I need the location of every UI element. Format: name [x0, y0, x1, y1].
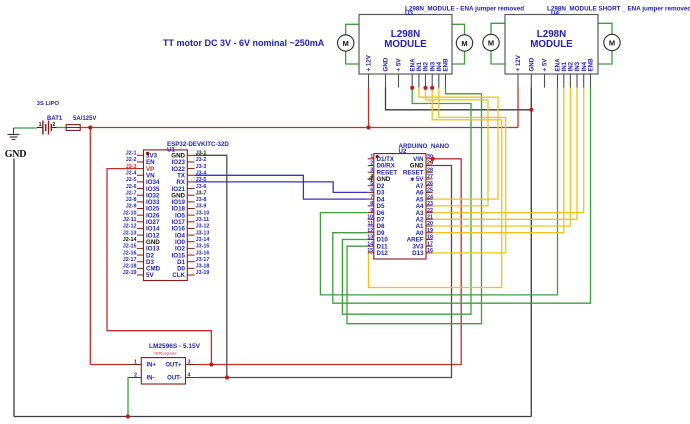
junction fuse/+12V	[88, 125, 92, 129]
svg-text:6: 6	[370, 188, 373, 194]
svg-text:17: 17	[427, 241, 433, 247]
U2 pin 30 VIN	[426, 158, 433, 160]
wire U3 IN4 to Arduino D13	[433, 88, 506, 253]
U1 pin J3-2 IO23	[187, 161, 194, 163]
svg-text:J3-18: J3-18	[196, 264, 210, 270]
svg-text:J3-1: J3-1	[196, 151, 207, 157]
svg-text:J3-10: J3-10	[196, 210, 210, 216]
wire battery minus to ground	[14, 127, 38, 129]
U4 pin ENA	[557, 74, 559, 88]
U2 pin 10 D7	[368, 218, 374, 220]
svg-text:J2-2: J2-2	[126, 157, 137, 163]
U1 pin J2-15 IO13	[137, 247, 144, 249]
svg-text:J2-13: J2-13	[123, 230, 137, 236]
U2 pin 20 A1	[426, 225, 433, 227]
svg-text:3: 3	[370, 167, 373, 173]
svg-text:+ 5V: + 5V	[542, 58, 549, 72]
svg-text:M: M	[609, 38, 615, 47]
svg-text:J2-14: J2-14	[123, 237, 137, 243]
svg-text:J2-16: J2-16	[123, 250, 137, 256]
svg-text:LM96 regulator: LM96 regulator	[154, 352, 178, 356]
wire +12V rail	[80, 127, 518, 129]
wire battery plus to fuse	[57, 127, 67, 129]
junction Arduino VIN	[431, 157, 435, 161]
U1 pin J2-4 VN	[137, 174, 144, 176]
U1 pin J3-1 GND	[187, 154, 194, 156]
U2 pin 26 A7	[426, 185, 433, 187]
wire motor M3 top	[491, 23, 505, 34]
svg-text:23: 23	[427, 201, 433, 207]
U1 pin J3-5 RX	[187, 181, 194, 183]
wire ESP32 RX to Arduino D3	[195, 182, 368, 193]
svg-text:J3-15: J3-15	[196, 244, 210, 250]
wire U3 ENA to Arduino D10	[342, 88, 471, 315]
U1 pin1 dot	[146, 152, 149, 155]
svg-text:IN+: IN+	[147, 363, 157, 369]
svg-text:J2-8: J2-8	[126, 197, 137, 203]
svg-text:CLK: CLK	[172, 272, 185, 279]
junction U3 +12V	[366, 125, 370, 129]
svg-text:J2-18: J2-18	[123, 264, 137, 270]
U2 pin 6 D3	[368, 191, 374, 193]
wire motor M3 bottom	[491, 50, 505, 64]
svg-text:J3-4: J3-4	[196, 170, 207, 176]
svg-text:2: 2	[370, 161, 373, 167]
U4 pin IN4	[583, 74, 585, 88]
wire U4 +12V drop	[517, 88, 519, 128]
svg-text:J2-19: J2-19	[123, 270, 137, 276]
U2 pin 29 GND	[426, 165, 433, 167]
junction U3 ENA	[410, 86, 414, 90]
U1 pin J2-17 D3	[137, 261, 144, 263]
svg-text:J2-5: J2-5	[126, 177, 137, 183]
svg-text:M: M	[343, 39, 349, 48]
svg-text:J2-12: J2-12	[123, 224, 137, 230]
motor M2	[456, 35, 472, 51]
svg-text:IN-: IN-	[147, 376, 155, 382]
U1 pin J2-5 IO34	[137, 181, 144, 183]
svg-text:8: 8	[370, 201, 373, 207]
svg-text:GND: GND	[529, 57, 536, 71]
svg-text:19: 19	[427, 228, 433, 234]
svg-text:J2-11: J2-11	[123, 217, 137, 223]
svg-text:OUT+: OUT+	[165, 363, 182, 369]
wire U4 ENA to Arduino D6	[320, 88, 557, 295]
U5 pin 1 IN+	[128, 364, 141, 366]
svg-text:+ 12V: + 12V	[515, 54, 522, 71]
U1 pin J3-19 CLK	[187, 274, 194, 276]
U1 pin J2-7 IO32	[137, 194, 144, 196]
wire U4 ENB to Arduino D9	[333, 88, 591, 304]
U2 pin 12 D9	[368, 232, 374, 234]
svg-text:10: 10	[367, 214, 373, 220]
U1 pin J2-16 D2	[137, 254, 144, 256]
svg-text:L298N_MODULE - ENA jumper remo: L298N_MODULE - ENA jumper removed	[405, 6, 524, 13]
U3 pin GND	[385, 74, 387, 88]
svg-text:J3-9: J3-9	[196, 204, 207, 210]
svg-text:24: 24	[427, 194, 433, 200]
U4 pin ENB	[590, 74, 592, 88]
svg-text:22: 22	[427, 208, 433, 214]
U1 pin J3-6 IO21	[187, 188, 194, 190]
wire U3 +12V drop	[368, 88, 370, 128]
wire OUT+ to Arduino VIN	[199, 159, 462, 365]
wire GND bottom rail	[14, 416, 531, 418]
U2 pin 28 RESET	[426, 171, 433, 173]
svg-text:J3-12: J3-12	[196, 224, 210, 230]
U2 pin 1 D1/TX	[368, 158, 374, 160]
U2 pin 14 D11	[368, 245, 374, 247]
svg-text:J3-11: J3-11	[196, 217, 210, 223]
U2 pin 23 A4	[426, 205, 433, 207]
U2 pin 2 D0/RX	[368, 165, 374, 167]
wire motor M2 bottom	[452, 51, 464, 64]
svg-text:J2-10: J2-10	[123, 210, 137, 216]
junction U3 IN3	[430, 86, 434, 90]
svg-text:U4: U4	[551, 10, 560, 17]
U1 pin J3-13 IO4	[187, 234, 194, 236]
U1 pin J3-15 IO2	[187, 247, 194, 249]
U2 pin 11 D8	[368, 225, 374, 227]
svg-text:+ 12V: + 12V	[366, 54, 373, 71]
wire GND vertical left	[13, 159, 15, 417]
U1 pin J3-4 TX	[187, 174, 194, 176]
U2 pin 18 AREF	[426, 238, 433, 240]
svg-text:J3-14: J3-14	[196, 237, 210, 243]
wire U3 IN3 to Arduino D12	[369, 88, 502, 288]
U1 pin J2-13 IO12	[137, 234, 144, 236]
Arduino Nano U2	[374, 154, 426, 259]
junction IN-/GND rail	[126, 414, 130, 418]
svg-text:J2-17: J2-17	[123, 257, 137, 263]
svg-text:J3-5: J3-5	[196, 177, 207, 183]
svg-text:L298N_MODULE SHORT _ ENA jumpe: L298N_MODULE SHORT _ ENA jumper removed	[547, 6, 690, 13]
U1 pin J2-19 5V	[137, 274, 144, 276]
U2 pin 4 GND	[368, 178, 374, 180]
U1 pin J3-3 IO22	[187, 168, 194, 170]
U1 pin J3-10 IO5	[187, 214, 194, 216]
svg-text:1: 1	[134, 359, 137, 365]
wire into IN+	[90, 364, 128, 366]
svg-text:M: M	[461, 39, 467, 48]
svg-text:7: 7	[370, 194, 373, 200]
svg-text:J2-1: J2-1	[126, 151, 137, 157]
svg-text:13: 13	[367, 235, 373, 241]
U1 pin J3-17 D1	[187, 261, 194, 263]
svg-text:TT motor DC 3V - 6V nominal ~2: TT motor DC 3V - 6V nominal ~250mA	[163, 38, 325, 48]
junction OUT+/VP	[209, 362, 213, 366]
U1 pin J3-14 IO0	[187, 241, 194, 243]
U2 pin 17 3V3	[426, 245, 433, 247]
U2 pin 9 D6	[368, 212, 374, 214]
U1 pin J2-18 CMD	[137, 267, 144, 269]
svg-text:5V: 5V	[146, 272, 154, 279]
svg-text:1: 1	[370, 154, 373, 160]
U1 pin J2-1 3V3	[137, 154, 144, 156]
U2 pin 25 A6	[426, 191, 433, 193]
U1 pin J3-18 D0	[187, 267, 194, 269]
wire U4 GND vertical	[530, 88, 532, 417]
svg-text:J2-7: J2-7	[126, 190, 137, 196]
svg-text:29: 29	[427, 161, 433, 167]
U1 pin J2-11 IO27	[137, 221, 144, 223]
wire ESP32 TX to Arduino D4	[195, 175, 368, 199]
svg-text:ESP32-DEVKITC-32D: ESP32-DEVKITC-32D	[167, 141, 229, 148]
U1 pin J3-16 IO15	[187, 254, 194, 256]
U1 pin J3-11 IO17	[187, 221, 194, 223]
wire motor M4 bottom	[597, 50, 612, 64]
U2 pin 8 D5	[368, 205, 374, 207]
U1 pin J3-9 IO18	[187, 208, 194, 210]
U1 pin J2-12 IO14	[137, 227, 144, 229]
svg-text:27: 27	[427, 174, 433, 180]
wire U3 IN1 to Arduino A5	[419, 88, 498, 200]
U1 pin J2-2 EN	[137, 161, 144, 163]
svg-text:J3-3: J3-3	[196, 164, 207, 170]
U3 pin +12V	[368, 74, 370, 88]
svg-text:20: 20	[427, 221, 433, 227]
svg-text:J2-6: J2-6	[126, 184, 137, 190]
svg-text:J2-4: J2-4	[126, 170, 137, 176]
svg-text:5A/125V: 5A/125V	[73, 116, 96, 122]
U2 pin 13 D10	[368, 238, 374, 240]
svg-text:J3-13: J3-13	[196, 230, 210, 236]
U1 pin J2-14 GND	[137, 241, 144, 243]
svg-text:11: 11	[367, 221, 373, 227]
junction GND U3/U4	[529, 108, 533, 112]
U2 pin 22 A3	[426, 212, 433, 214]
U3 pin IN1	[418, 74, 420, 88]
svg-text:14: 14	[367, 241, 373, 247]
svg-text:3S LIPO: 3S LIPO	[37, 101, 60, 107]
U2 pin 3 RESET	[368, 171, 374, 173]
wire motor M1 bottom	[346, 51, 359, 64]
svg-text:MODULE: MODULE	[384, 39, 427, 50]
motor M1	[338, 35, 354, 51]
svg-text:J3-17: J3-17	[196, 257, 210, 263]
svg-text:J2-15: J2-15	[123, 244, 137, 250]
svg-text:GND: GND	[5, 149, 26, 160]
svg-text:J3-19: J3-19	[196, 270, 210, 276]
svg-text:J3-2: J3-2	[196, 157, 207, 163]
svg-text:U3: U3	[405, 10, 414, 17]
wire ESP32 VP to OUT+ net	[107, 169, 211, 365]
svg-text:U2: U2	[399, 148, 407, 155]
U1 pin J2-10 IO26	[137, 214, 144, 216]
U2 pin 24 A5	[426, 198, 433, 200]
U2 pin4 gnd flag	[371, 176, 373, 182]
U2 pin 16 D13	[426, 252, 433, 254]
svg-text:18: 18	[427, 235, 433, 241]
U3 pin IN2	[425, 74, 427, 88]
U2 pin1 dot	[376, 155, 379, 158]
wire U3 ENB to Arduino D11	[347, 88, 482, 324]
U3 pin ENA	[411, 74, 413, 88]
motor M4	[604, 34, 620, 50]
U4 pin IN2	[569, 74, 571, 88]
ESP32 module U1	[144, 150, 188, 281]
svg-text:16: 16	[427, 248, 433, 254]
svg-text:J3-7: J3-7	[196, 190, 207, 196]
svg-text:J3-6: J3-6	[196, 184, 207, 190]
wire motor M4 top	[597, 23, 612, 34]
U1 pin J3-7 GND	[187, 194, 194, 196]
ground symbol	[13, 128, 15, 135]
U5 pin 3 OUT+	[186, 364, 199, 366]
svg-text:D13: D13	[412, 250, 424, 257]
U2 pin 19 A0	[426, 232, 433, 234]
svg-text:21: 21	[427, 214, 433, 220]
U2 pin 7 D4	[368, 198, 374, 200]
U5 pin 2 IN-	[128, 377, 141, 379]
svg-text:3: 3	[188, 359, 191, 365]
U2 pin 21 A2	[426, 218, 433, 220]
svg-text:J2-9: J2-9	[126, 204, 137, 210]
wire Arduino A3 to U4 IN4	[433, 88, 584, 213]
svg-text:1: 1	[39, 122, 42, 128]
U4 pin +5V	[544, 74, 546, 88]
svg-text:15: 15	[367, 248, 373, 254]
U3 pin ENB	[445, 74, 447, 88]
svg-text:D12: D12	[377, 250, 389, 257]
U4 pin +12V	[517, 74, 519, 88]
U1 pin J2-9 IO25	[137, 208, 144, 210]
junction U3 IN2	[423, 86, 427, 90]
junction OUT-/ESP GND	[225, 375, 229, 379]
svg-text:2: 2	[53, 122, 56, 128]
U4 pin GND	[530, 74, 532, 88]
svg-text:OUT-: OUT-	[167, 376, 181, 382]
svg-text:28: 28	[427, 167, 433, 173]
LM2596 buck converter U5	[141, 358, 185, 384]
wire Arduino A0 to U4 IN1	[433, 88, 564, 233]
U4 pin IN1	[563, 74, 565, 88]
U1 pin J2-6 IO35	[137, 188, 144, 190]
svg-text:2: 2	[134, 372, 137, 378]
wire LM2596 IN- to GND rail	[127, 378, 129, 417]
wire OUT- to Arduino GND pin29	[199, 166, 452, 378]
U1 pin J2-8 IO33	[137, 201, 144, 203]
L298N module U4	[505, 15, 598, 75]
wire Arduino A1 to U4 IN2	[433, 88, 571, 227]
U3 pin IN3	[431, 74, 433, 88]
U1 pin J2-3 VP	[137, 168, 144, 170]
svg-text:GND: GND	[383, 57, 390, 71]
svg-text:J3-8: J3-8	[196, 197, 207, 203]
U5 pin 4 OUT-	[186, 377, 199, 379]
wire +12V down to LM2596 IN+	[89, 128, 91, 365]
U1 pin J3-12 IO16	[187, 227, 194, 229]
U1 pin J3-8 IO19	[187, 201, 194, 203]
wire U3 IN2 to Arduino A4	[426, 88, 489, 206]
U2 pin 5 D2	[368, 185, 374, 187]
svg-text:+ 5V: + 5V	[396, 58, 403, 72]
svg-text:25: 25	[427, 188, 433, 194]
svg-text:M: M	[488, 38, 494, 47]
svg-text:12: 12	[367, 228, 373, 234]
wire ESP32 GND pin J3-1 to OUT- net	[195, 155, 227, 377]
svg-text:J3-16: J3-16	[196, 250, 210, 256]
U4 pin IN3	[576, 74, 578, 88]
motor M3	[483, 34, 499, 50]
L298N module U3	[359, 15, 452, 75]
svg-text:4: 4	[188, 372, 191, 378]
U3 pin IN4	[438, 74, 440, 88]
U3 pin +5V	[398, 74, 400, 88]
wire motor M1 top	[346, 24, 359, 35]
wire motor M2 top	[452, 24, 464, 35]
svg-text:LM2596S - 5.15V: LM2596S - 5.15V	[149, 343, 201, 350]
svg-text:J2-3: J2-3	[126, 164, 137, 170]
svg-text:9: 9	[370, 208, 373, 214]
svg-text:26: 26	[427, 181, 433, 187]
U2 pin 27 5V	[426, 178, 433, 180]
wire U3 GND to U4 GND	[386, 88, 532, 110]
wire Arduino A2 to U4 IN3	[433, 88, 577, 220]
svg-text:MODULE: MODULE	[530, 39, 573, 50]
svg-text:ENB: ENB	[443, 58, 450, 72]
U2 pin 15 D12	[368, 252, 374, 254]
svg-text:ENB: ENB	[588, 58, 595, 72]
